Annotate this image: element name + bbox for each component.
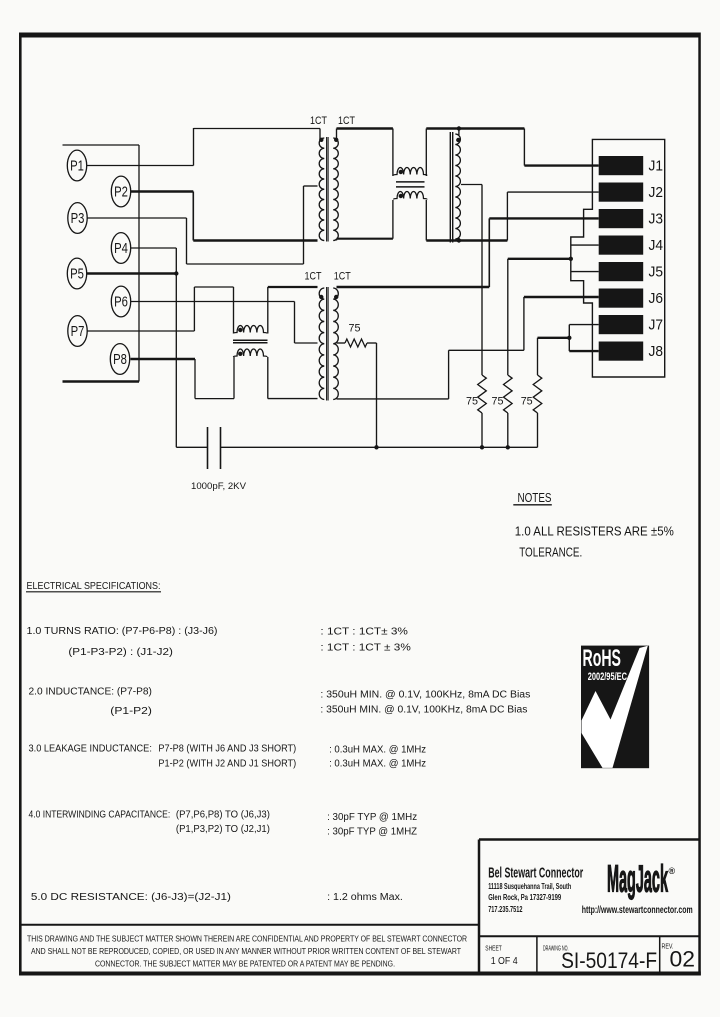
- wire P1 riser: [193, 128, 195, 166]
- junction P4/P5 node: [174, 271, 178, 275]
- wire J7/J8 bracket vertical: [568, 325, 570, 352]
- wire P6 riser: [294, 302, 296, 344]
- choke L1 core line 1: [233, 339, 268, 341]
- wire J6 riser 2: [523, 297, 525, 350]
- svg-text:SHEET: SHEET: [485, 946, 502, 953]
- junction T3 bottom node: [457, 238, 461, 242]
- choke L2 core line 2: [396, 186, 425, 188]
- svg-text:Bel Stewart Connector: Bel Stewart Connector: [488, 866, 583, 882]
- wire J3 riser: [488, 218, 490, 287]
- svg-text:P7-P8 (WITH J6 AND J3 SHORT): P7-P8 (WITH J6 AND J3 SHORT): [158, 744, 296, 755]
- wire cap bus right: [221, 446, 538, 448]
- transformer T1 core: [326, 137, 328, 242]
- transformer T2 primary winding: [319, 288, 324, 399]
- wire J8 stub (thick): [569, 350, 598, 352]
- polarity dot T3: [456, 138, 460, 142]
- svg-text:MagJack: MagJack: [607, 859, 668, 901]
- svg-text:J6: J6: [649, 290, 664, 307]
- wire P2 riser: [192, 192, 194, 241]
- wire P1 horizontal: [87, 165, 194, 167]
- connector pad J1: [599, 156, 644, 175]
- pin P6: [111, 286, 130, 317]
- resistor R3 75 ohm: [504, 375, 513, 413]
- wire J1 riser: [523, 129, 525, 166]
- wire choke L1 bottom winding left lead: [233, 357, 235, 399]
- P-connector bracket top edge: [63, 144, 140, 146]
- svg-text:02: 02: [670, 947, 696, 972]
- wire P3 riser up: [303, 186, 305, 264]
- wire P7 upper run: [194, 286, 233, 288]
- transformer T2 secondary winding: [333, 288, 338, 399]
- resistor R2 75 ohm: [478, 375, 487, 413]
- svg-text:P8: P8: [113, 352, 127, 368]
- wire J4 stub: [571, 244, 599, 246]
- wire J7/J8 bracket riser to R4: [537, 338, 539, 375]
- wire cap bus left: [176, 446, 207, 448]
- svg-text:P3: P3: [71, 211, 85, 227]
- choke L2 core line 1: [396, 181, 425, 183]
- svg-text:4.0 INTERWINDING CAPACITANCE:: 4.0 INTERWINDING CAPACITANCE:: [29, 810, 171, 821]
- specs heading underline: [26, 591, 161, 593]
- svg-text:11118 Susquehanna Trail, South: 11118 Susquehanna Trail, South: [488, 882, 571, 891]
- svg-text:CONNECTOR. THE SUBJECT MATTER: CONNECTOR. THE SUBJECT MATTER MAY BE PAT…: [95, 960, 395, 969]
- capacitor C1 1000pF 2KV: [207, 427, 209, 469]
- wire J4/J5 bracket riser to R3: [507, 259, 509, 375]
- svg-text:75: 75: [521, 396, 533, 408]
- svg-text:1.0 TURNS RATIO: (P7-P6-P8) :: 1.0 TURNS RATIO: (P7-P6-P8) : (J3-J6): [27, 626, 218, 637]
- svg-text:J2: J2: [649, 184, 664, 201]
- svg-text:P2: P2: [114, 185, 128, 201]
- svg-text:(P1-P3-P2) : (J1-J2): (P1-P3-P2) : (J1-J2): [68, 647, 172, 658]
- notes heading underline: [513, 504, 552, 506]
- wire to J2: [507, 191, 598, 193]
- svg-text:TOLERANCE.: TOLERANCE.: [519, 545, 582, 560]
- wire P4 riser down to capacitor: [175, 248, 177, 447]
- wire choke L2 to J1 corner (thick): [426, 127, 524, 129]
- wire P7 horizontal: [87, 330, 194, 332]
- svg-text:J5: J5: [649, 264, 664, 281]
- polarity dot L2 bottom: [399, 194, 403, 198]
- svg-text:®: ®: [669, 866, 676, 876]
- wire choke L1 top winding left lead: [233, 287, 235, 334]
- connector pad J3: [599, 209, 644, 228]
- svg-text:5.0 DC RESISTANCE: (J6-J3)=(J2: 5.0 DC RESISTANCE: (J6-J3)=(J2-J1): [31, 892, 231, 903]
- transformer T3 core: [449, 132, 451, 243]
- svg-text:ELECTRICAL SPECIFICATIONS:: ELECTRICAL SPECIFICATIONS:: [27, 581, 161, 592]
- connector pad J7: [599, 315, 644, 334]
- pin P5: [67, 258, 86, 289]
- wire T1 secondary top lead: [336, 129, 338, 140]
- connector J block outline: [571, 139, 665, 377]
- svg-text:AND SHALL NOT BE REPRODUCED, C: AND SHALL NOT BE REPRODUCED, COPIED, OR …: [31, 947, 461, 956]
- wire P7 riser up: [193, 287, 195, 331]
- P-connector bracket bottom edge (thick): [63, 380, 140, 383]
- svg-text:717.235.7512: 717.235.7512: [488, 905, 523, 914]
- title block: [478, 840, 481, 976]
- polarity dot L1 top: [238, 328, 242, 332]
- wire T1 secondary bottom (thick): [337, 238, 393, 240]
- wire T1 secondary top (thick): [337, 127, 393, 129]
- choke L2 bottom winding: [394, 192, 428, 200]
- choke L1 bottom winding: [234, 349, 268, 357]
- wire R2 bottom lead: [481, 413, 483, 447]
- svg-text:P1-P2 (WITH J2 AND J1 SHORT): P1-P2 (WITH J2 AND J1 SHORT): [158, 759, 296, 770]
- wire T2 secondary bottom: [337, 398, 449, 400]
- wire J5 stub: [571, 271, 599, 273]
- connector pad J8: [599, 342, 644, 361]
- wire J4/J5 bracket to R3 (thick): [508, 258, 571, 260]
- wire top edge to T1 primary top: [194, 128, 321, 130]
- svg-text:(P1-P2): (P1-P2): [110, 706, 152, 717]
- svg-text:2.0 INDUCTANCE: (P7-P8): 2.0 INDUCTANCE: (P7-P8): [29, 687, 152, 698]
- svg-text:75: 75: [466, 396, 478, 408]
- wire T2 secondary center tap: [337, 342, 346, 344]
- wire J7/J8 bracket to R4 (thick): [538, 337, 570, 339]
- resistor R4 75 ohm: [533, 375, 542, 413]
- connector pad J6: [599, 289, 644, 308]
- svg-text:1CT: 1CT: [338, 115, 355, 127]
- svg-text:P6: P6: [114, 295, 128, 311]
- svg-text:J8: J8: [649, 343, 664, 360]
- wire to T1 primary center tap: [304, 185, 318, 187]
- svg-text:: 0.3uH MAX. @ 1MHz: : 0.3uH MAX. @ 1MHz: [329, 745, 426, 756]
- pin P8: [110, 344, 129, 375]
- wire P3 horizontal: [87, 217, 187, 219]
- polarity dot L2 top: [399, 170, 403, 174]
- svg-text:RoHS: RoHS: [583, 645, 622, 672]
- junction J7/J8 bracket node: [567, 336, 571, 340]
- connector pad J2: [599, 183, 644, 202]
- wire P8 riser down: [194, 359, 196, 399]
- wire R1 to riser: [367, 342, 377, 344]
- svg-text:Glen Rock, Pa 17327-9199: Glen Rock, Pa 17327-9199: [488, 893, 561, 902]
- svg-text:75: 75: [349, 323, 361, 335]
- svg-text:P1: P1: [70, 159, 84, 175]
- choke L2 top winding: [394, 168, 428, 176]
- wire choke L2 top winding right lead: [425, 129, 427, 177]
- pin P4: [111, 233, 130, 264]
- svg-text:1.0 ALL RESISTERS ARE ±5%: 1.0 ALL RESISTERS ARE ±5%: [515, 524, 674, 539]
- polarity dot T1 secondary: [334, 138, 338, 142]
- pin P2: [111, 176, 130, 207]
- wire choke L1 top winding right lead: [267, 287, 269, 334]
- wire P8 horizontal (thick): [131, 358, 196, 360]
- junction R3 / cap bus: [506, 445, 510, 449]
- wire to T2 primary center tap: [295, 342, 318, 344]
- choke L1 core line 2: [233, 342, 268, 344]
- svg-text:: 350uH MIN. @ 0.1V, 100KHz, 8: : 350uH MIN. @ 0.1V, 100KHz, 8mA DC Bias: [320, 690, 530, 701]
- wire T3 center tap riser to R2: [481, 185, 483, 376]
- transformer T1 primary winding: [319, 138, 324, 241]
- wire T3 top lead: [458, 129, 460, 136]
- svg-text:: 1CT : 1CT± 3%: : 1CT : 1CT± 3%: [320, 627, 408, 638]
- svg-text:P4: P4: [114, 241, 128, 257]
- svg-text:: 30pF TYP @ 1MHz: : 30pF TYP @ 1MHz: [327, 812, 417, 823]
- resistor R1 75 ohm: [345, 339, 367, 347]
- svg-text:3.0 LEAKAGE INDUCTANCE:: 3.0 LEAKAGE INDUCTANCE:: [29, 744, 152, 755]
- svg-text:75: 75: [492, 396, 504, 408]
- svg-text:: 1.2 ohms Max.: : 1.2 ohms Max.: [327, 892, 403, 903]
- svg-text:(P7,P6,P8) TO (J6,J3): (P7,P6,P8) TO (J6,J3): [176, 810, 270, 821]
- wire choke L2 bottom winding right lead: [425, 200, 427, 241]
- transformer T2 core: [326, 287, 328, 401]
- svg-text:: 30pF TYP @ 1MHZ: : 30pF TYP @ 1MHZ: [327, 827, 417, 838]
- polarity dot T2 secondary: [334, 295, 338, 299]
- svg-text:1CT: 1CT: [310, 115, 327, 127]
- svg-text:NOTES: NOTES: [518, 490, 552, 505]
- wire T2 secondary top (thick): [337, 286, 490, 288]
- svg-text:SI-50174-F: SI-50174-F: [561, 948, 657, 973]
- RoHS logo: [581, 645, 649, 768]
- svg-text:1CT: 1CT: [305, 271, 322, 283]
- wire choke L1 bottom winding right lead: [267, 357, 269, 399]
- wire to J1 (thick): [524, 164, 598, 166]
- junction J4/J5 bracket node: [569, 257, 573, 261]
- svg-text:THIS DRAWING AND THE SUBJECT M: THIS DRAWING AND THE SUBJECT MATTER SHOW…: [27, 935, 467, 944]
- wire J7 stub: [569, 324, 598, 326]
- polarity dot T2 primary: [319, 295, 323, 299]
- pin P1: [67, 150, 86, 181]
- svg-text:P7: P7: [71, 324, 85, 340]
- wire J6 middle run: [449, 349, 524, 351]
- wire J6 riser 1: [448, 350, 450, 399]
- svg-text:http://www.stewartconnector.co: http://www.stewartconnector.com: [582, 905, 693, 916]
- wire P3 riser down: [186, 218, 188, 264]
- svg-text:J1: J1: [649, 158, 664, 175]
- wire T1 primary top lead: [319, 129, 321, 140]
- wire to J3 (thick): [489, 217, 598, 219]
- transformer T3 winding: [455, 134, 460, 239]
- wire T3 center tap: [461, 184, 482, 186]
- wire P2 to T1 primary bottom (thick): [193, 239, 317, 241]
- wire P8 lower run: [195, 398, 234, 400]
- polarity dot T1 primary: [319, 138, 323, 142]
- transformer T1 secondary winding: [333, 138, 338, 241]
- wire choke L2 bottom winding left lead: [392, 200, 394, 239]
- wire R1 riser to cap bus: [376, 343, 378, 447]
- choke L1 top winding: [234, 326, 268, 334]
- wire P3 lower run: [187, 263, 304, 265]
- wire T3 bottom lead: [458, 238, 460, 241]
- wire P4 horizontal: [131, 247, 177, 249]
- svg-text:P5: P5: [70, 267, 84, 283]
- disclaimer box: [20, 924, 480, 926]
- wire choke L1 to T2 primary top (thick): [268, 286, 318, 288]
- wire T1 secondary bottom lead: [336, 239, 338, 241]
- wire R3 bottom lead: [507, 413, 509, 447]
- wire choke L1 to T2 primary bottom: [268, 398, 318, 400]
- wire P2 horizontal (thick): [131, 190, 194, 192]
- connector pad J5: [599, 262, 644, 281]
- svg-text:(P1,P3,P2) TO (J2,J1): (P1,P3,P2) TO (J2,J1): [176, 824, 270, 835]
- svg-text:: 350uH MIN. @ 0.1V, 100KHz, 8: : 350uH MIN. @ 0.1V, 100KHz, 8mA DC Bias: [320, 705, 527, 716]
- junction R2 / cap bus: [480, 445, 484, 449]
- pin P7: [68, 316, 87, 347]
- junction T3 top node: [457, 126, 461, 130]
- svg-text:J4: J4: [649, 237, 664, 254]
- junction R1 / cap bus: [374, 445, 378, 449]
- wire to J6 (thick): [524, 296, 599, 298]
- P-connector bracket right edge: [138, 145, 140, 382]
- wire choke L2 top winding left lead: [392, 129, 394, 177]
- svg-text:: 0.3uH MAX. @ 1MHz: : 0.3uH MAX. @ 1MHz: [329, 759, 426, 770]
- wire J2 riser down: [506, 192, 508, 240]
- svg-text:2002/95/EC: 2002/95/EC: [588, 671, 627, 683]
- wire R4 bottom lead: [537, 413, 539, 447]
- connector pad J4: [599, 236, 644, 255]
- polarity dot L1 bottom: [238, 352, 242, 356]
- svg-text:: 1CT : 1CT ± 3%: : 1CT : 1CT ± 3%: [320, 643, 411, 654]
- pin P3: [68, 203, 87, 234]
- wire T1 bottom to J2 riser (thick): [426, 239, 507, 241]
- svg-text:1 OF 4: 1 OF 4: [491, 956, 518, 967]
- svg-text:1000pF, 2KV: 1000pF, 2KV: [191, 481, 247, 492]
- svg-text:J7: J7: [649, 317, 664, 334]
- wire P6 horizontal: [131, 301, 295, 303]
- svg-text:1CT: 1CT: [334, 271, 351, 283]
- wire P5 horizontal (thick): [87, 272, 177, 274]
- svg-text:J3: J3: [649, 211, 664, 228]
